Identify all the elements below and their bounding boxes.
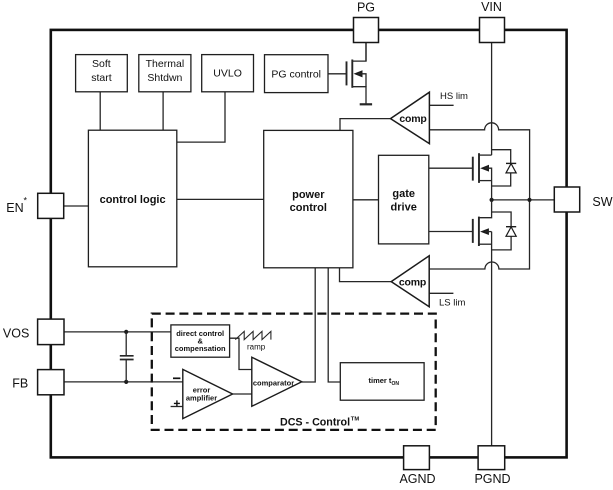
ramp waveform symbol: [235, 331, 271, 339]
svg-text:FB: FB: [12, 377, 28, 391]
svg-text:comp: comp: [399, 113, 426, 125]
wire PG pin to Q1 drain: [365, 43, 367, 62]
svg-text:DCS - Control: DCS - Control: [280, 417, 350, 429]
svg-text:SW: SW: [592, 195, 612, 209]
wire HS lim stub: [429, 104, 453, 106]
wire power control to timer: [328, 268, 340, 382]
pin VIN: [480, 0, 505, 43]
wire comparator output to power control: [302, 268, 315, 382]
pin PGND: [474, 446, 510, 486]
wire power control to gate drive: [353, 199, 379, 201]
wire PGND net vertical: [491, 232, 493, 446]
svg-text:LS lim: LS lim: [439, 298, 465, 309]
pin SW: [554, 187, 612, 212]
label plus input: [174, 400, 180, 406]
wire direct-control to comparator upper input: [230, 338, 252, 369]
wire power control to HS comp tip: [340, 119, 391, 131]
pin AGND: [399, 446, 435, 486]
wire EN to control logic: [64, 205, 89, 207]
svg-text:PGND: PGND: [474, 472, 510, 485]
wire error amp output to comparator: [233, 393, 252, 395]
svg-text:Thermal: Thermal: [146, 58, 185, 70]
wire soft-start to control logic: [99, 92, 101, 130]
svg-text:comparator: comparator: [253, 379, 294, 388]
ground: [360, 103, 372, 105]
svg-text:comp: comp: [399, 276, 426, 288]
op-amp U3 error amplifier: [183, 369, 233, 418]
block control logic: [88, 130, 176, 267]
wire thermal-shutdown to control logic: [162, 92, 164, 130]
block direct control &amp; compensation: [171, 325, 230, 357]
pin PG: [354, 1, 379, 43]
node SW junction left: [490, 198, 494, 202]
transistor Q1 PG PMOS: [328, 43, 366, 105]
node FB junction: [124, 380, 128, 384]
capacitor C1: [120, 332, 134, 382]
op-amp U1 HS comp: [391, 92, 430, 143]
wire HS current sense with hop over VIN net: [429, 123, 529, 200]
svg-text:HS lim: HS lim: [440, 91, 468, 102]
diode D1 body diode of Q2: [492, 150, 517, 186]
pin EN: [6, 193, 63, 218]
op-amp U4 comparator: [252, 357, 302, 406]
node VOS junction: [124, 330, 128, 334]
label minus input: [173, 377, 180, 379]
wire FB net: [64, 381, 183, 383]
block power control: [264, 130, 353, 267]
block Soft start: [76, 55, 128, 92]
svg-text:power: power: [292, 189, 325, 201]
svg-text:Soft: Soft: [92, 58, 111, 70]
transistor Q2 high-side NMOS: [429, 153, 492, 200]
svg-text:ramp: ramp: [247, 343, 266, 352]
svg-text:control: control: [290, 202, 327, 214]
svg-text:PG control: PG control: [271, 69, 321, 81]
svg-text:*: *: [24, 196, 28, 206]
block UVLO: [202, 55, 254, 92]
svg-text:Shtdwn: Shtdwn: [147, 72, 182, 84]
diode D2 body diode of Q3: [492, 212, 517, 250]
wire error amp plus stub: [171, 406, 183, 408]
block gate drive: [379, 155, 429, 244]
IC boundary: [51, 30, 567, 458]
wire LS lim stub: [429, 292, 453, 294]
wire UVLO to control logic: [177, 92, 225, 142]
node SW junction right: [527, 198, 531, 202]
transistor Q3 low-side NMOS: [429, 200, 492, 246]
svg-text:VIN: VIN: [481, 0, 502, 14]
DCS-Control dashed boundary: [152, 314, 436, 430]
wire VOS net: [64, 331, 171, 333]
svg-text:EN: EN: [6, 201, 23, 215]
svg-text:timer t: timer t: [369, 376, 392, 385]
wire VIN net vertical: [491, 43, 493, 156]
svg-text:control logic: control logic: [100, 194, 166, 206]
svg-text:compensation: compensation: [175, 344, 226, 353]
wire control logic to power control: [177, 198, 264, 200]
wire LS current sense with hop over PGND net: [429, 200, 529, 269]
svg-text:VOS: VOS: [3, 327, 29, 341]
svg-text:gate: gate: [392, 188, 415, 200]
svg-text:UVLO: UVLO: [213, 68, 242, 80]
svg-text:TM: TM: [351, 416, 360, 422]
svg-text:AGND: AGND: [399, 472, 435, 485]
wire SW net: [492, 199, 555, 201]
svg-text:PG: PG: [357, 1, 375, 15]
op-amp U2 LS comp: [391, 256, 429, 307]
block timer tON: [340, 363, 424, 401]
svg-text:drive: drive: [391, 202, 417, 214]
svg-text:amplifier: amplifier: [186, 394, 217, 403]
svg-text:start: start: [91, 72, 112, 84]
pin FB: [12, 370, 64, 395]
svg-text:ON: ON: [392, 381, 400, 387]
wire power control to LS comp tip: [340, 268, 392, 282]
block PG control: [265, 55, 329, 93]
pin VOS: [3, 319, 64, 345]
block Thermal Shtdwn: [139, 55, 191, 92]
